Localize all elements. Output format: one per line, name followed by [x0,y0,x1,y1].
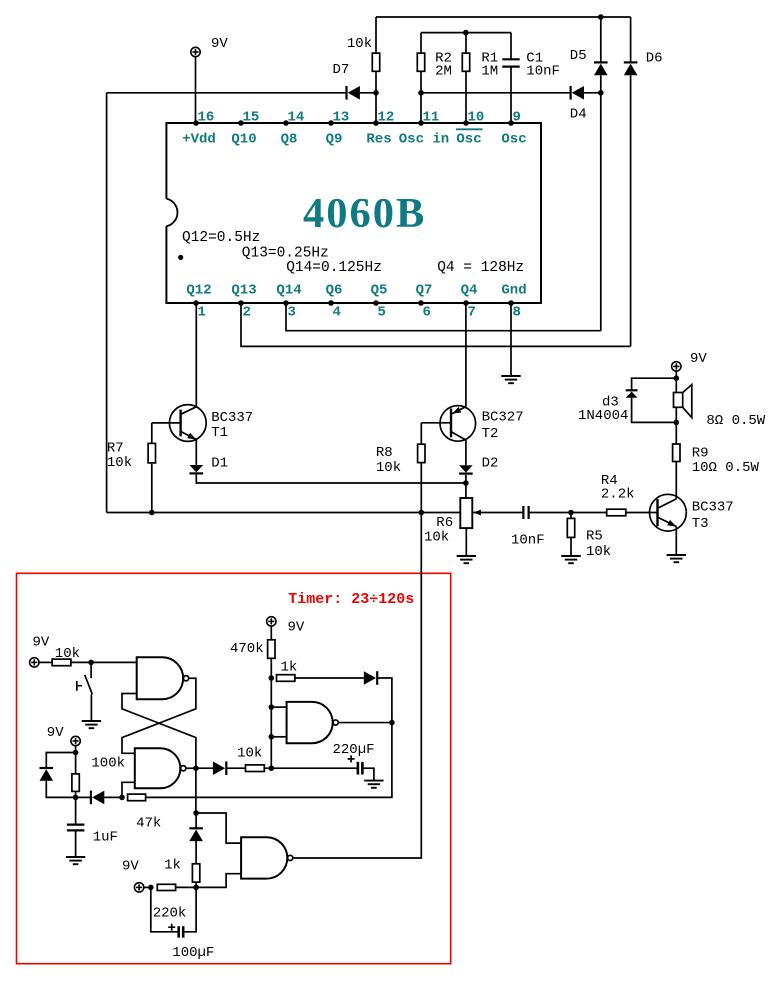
svg-text:14: 14 [288,109,305,125]
wire G2 output down [195,768,197,813]
svg-text:D4: D4 [570,107,587,123]
ground pin 8 [501,376,520,383]
svg-text:10k: 10k [55,646,80,662]
svg-text:Q4 = 128Hz: Q4 = 128Hz [437,260,524,276]
resistor 47k [128,794,146,801]
capacitor 1uF [75,797,77,824]
wire Q13 to D6 [241,303,631,346]
timer block red border [17,573,451,963]
wire oscillator top rail [421,32,511,34]
diode D2 [459,465,473,472]
svg-text:11: 11 [423,109,440,125]
capacitor C1 10nF [510,33,512,60]
node 1k tap [269,675,275,681]
svg-text:D5: D5 [570,48,587,64]
wire 10k to NAND1 input A [71,661,137,663]
node G3 input A [269,704,275,710]
ground R6 [457,556,476,563]
wire 220k to node B [176,886,197,888]
node D2 bottom [465,475,467,483]
svg-text:Q12=0.5Hz: Q12=0.5Hz [182,230,260,246]
resistor R7 10k [151,423,153,444]
svg-text:T2: T2 [482,426,499,442]
svg-text:16: 16 [198,109,215,125]
svg-text:10k: 10k [237,745,262,761]
potentiometer R6 10k [460,498,472,528]
svg-text:9V: 9V [288,620,305,636]
svg-text:1N4004: 1N4004 [578,408,628,424]
svg-text:5: 5 [378,304,386,320]
svg-text:1k: 1k [281,659,298,675]
resistor 10k latch input [39,661,52,663]
svg-text:9V: 9V [47,725,64,741]
diode reset left [46,753,75,769]
resistor 1k bottom [195,841,197,864]
diode D7 [345,86,347,100]
power 9V supply top [191,47,200,56]
wire T1 emitter to D1 [195,440,197,466]
svg-text:10k: 10k [424,529,449,545]
svg-text:2M: 2M [435,63,452,79]
diode D5 [600,17,602,62]
resistor R1 1M [465,33,467,54]
wire top rail [376,16,631,18]
wire 9V to speaker node [675,371,677,378]
wire D4 to D5 net [584,92,601,94]
svg-text:2: 2 [243,304,251,320]
svg-text:1uF: 1uF [93,830,118,846]
resistor 10k top [375,17,377,53]
transistor T3 BC337 [650,494,687,531]
svg-text:10: 10 [468,109,485,125]
diode D1 [190,465,204,472]
resistor R4 2.2k [607,509,626,516]
svg-text:D1: D1 [211,455,228,471]
svg-text:D7: D7 [333,62,350,78]
svg-text:10k: 10k [107,455,132,471]
svg-text:Q13=0.25Hz: Q13=0.25Hz [242,245,329,261]
IC U1 4060B body [166,123,541,303]
power 9V bottom [134,883,143,892]
wire R4 to T3 base [626,512,658,514]
wire D6 down to Q13 line [630,75,632,346]
diode feedback [295,677,364,679]
svg-text:+Vdd: +Vdd [182,132,216,148]
wire pin 1 to T1 collector [195,303,197,407]
svg-text:10Ω 0.5W: 10Ω 0.5W [692,460,760,476]
wire pin 8 to ground [510,303,512,376]
wire node to R4 [571,512,607,514]
svg-text:BC337: BC337 [692,500,734,516]
svg-text:10nF: 10nF [511,532,545,548]
IC U1 bottom pin dots [193,300,199,306]
svg-text:Q6: Q6 [326,283,343,299]
resistor 1k feedback [277,675,295,682]
node switch tap [88,660,94,666]
node NAND4 input A tap [193,810,199,816]
wire T3 collector to R9 [675,462,677,499]
wire node B to G4 input B [196,874,241,888]
svg-text:100µF: 100µF [172,945,214,961]
NAND gate G2 [135,748,181,788]
capacitor 220uF [271,767,357,769]
resistor R8 10k [420,423,422,444]
svg-text:R5: R5 [586,529,603,545]
diode pulse [195,813,197,828]
resistor 470k [270,626,272,640]
wire T1 base [152,422,181,424]
svg-text:47k: 47k [136,816,161,832]
svg-text:R9: R9 [692,446,709,462]
resistor 10k timing [226,767,245,769]
node R7 bottom [149,510,155,516]
svg-text:220k: 220k [153,906,187,922]
resistor R9 10ohm [673,444,680,462]
svg-text:3: 3 [288,304,296,320]
NAND gate G3 [287,702,333,743]
svg-text:Q14=0.125Hz: Q14=0.125Hz [286,260,382,276]
svg-text:BC327: BC327 [482,410,524,426]
node R2 bottom junction [418,90,424,96]
transistor T1 BC337 [169,405,206,442]
ground T3 [667,555,686,562]
switch S1 pushbutton [90,662,92,678]
wire main horizontal net [107,512,473,514]
node B bottom [193,885,199,891]
svg-text:1: 1 [198,304,206,320]
node 47k left [104,796,122,798]
node 220k left [144,886,151,888]
svg-text:220µF: 220µF [333,742,375,758]
svg-text:Q9: Q9 [326,132,343,148]
power 9V 470k [267,617,276,626]
capacitor 10nF coupling [523,506,528,519]
wire Q14 to D5 [286,303,601,331]
node junction pin12/10k/D7 [373,90,379,96]
svg-text:1M: 1M [481,63,498,79]
ground 1uF [66,857,85,864]
wire R6 wiper to C 10nF [473,512,523,514]
node R5 top [568,510,574,516]
wire G1 output to cross-couple [122,678,196,753]
svg-text:9: 9 [513,109,521,125]
node top rail D5 [598,14,604,20]
node R8 bottom [419,510,425,516]
wire D2 node to R6 [465,483,467,498]
svg-text:Q10: Q10 [231,132,256,148]
capacitor 100uF [151,887,178,931]
IC U1 top pin dots [193,120,199,126]
svg-text:10nF: 10nF [526,63,560,79]
wire G3 output [338,722,392,724]
node R9 top [674,420,680,426]
diode D6 [630,17,632,62]
node G3 output [389,720,395,726]
resistor R5 10k [570,513,572,519]
svg-text:470k: 470k [230,641,264,657]
wire D5 down to Q14 line [600,75,602,331]
power 9V latch top [30,658,39,667]
svg-text:D2: D2 [482,456,499,472]
NAND gate G4 [241,837,287,878]
svg-text:4: 4 [333,304,341,320]
wire D7 net horizontal [107,92,347,94]
power 9V speaker [672,362,681,371]
svg-text:12: 12 [378,109,395,125]
svg-text:T3: T3 [692,516,709,532]
svg-text:9V: 9V [33,635,50,651]
svg-text:Osc in: Osc in [399,132,449,148]
NAND gate G1 [137,657,183,699]
svg-text:8Ω 0.5W: 8Ω 0.5W [706,413,765,429]
node 10k right [264,767,271,769]
svg-text:9V: 9V [122,858,139,874]
svg-text:10k: 10k [376,460,401,476]
wire G2 input B to 47k node [122,782,135,797]
svg-text:4060B: 4060B [303,190,426,237]
ground 220uF [364,781,383,788]
svg-text:8: 8 [513,304,521,320]
svg-text:Q7: Q7 [416,283,433,299]
transistor T2 BC327 [440,406,476,442]
svg-text:Osc: Osc [501,132,526,148]
wire junction to D4 [421,92,571,94]
wire D7 to junction [360,92,376,94]
diode d3 1N4004 [632,378,677,390]
node 100k bottom [73,795,79,801]
wire T2 collector to D2 [465,440,467,465]
svg-text:Q4: Q4 [461,283,478,299]
wire D1 to D2 net [196,475,466,483]
wire T3 emitter to ground [675,527,677,556]
wire 10nF to R5/R4 node [529,512,571,514]
wire 9V to node [75,746,77,753]
resistor R2 2M [420,33,422,54]
svg-text:Osc: Osc [456,132,481,148]
resistor 220k [157,884,175,890]
diode 47k line [76,796,91,798]
node D4/D5 junction [598,90,604,96]
svg-text:9V: 9V [211,36,228,52]
wire to G4 input A [196,813,241,843]
svg-text:Q12: Q12 [186,283,211,299]
wire 470k node to G3 inputs [270,678,272,768]
wire 9V to pin 16 [195,57,197,123]
svg-text:Q13: Q13 [231,283,256,299]
svg-text:2.2k: 2.2k [601,486,635,502]
svg-text:9V: 9V [690,351,707,367]
svg-text:D6: D6 [646,51,663,67]
svg-text:13: 13 [333,109,350,125]
wire pin 7 to T2 [465,303,467,407]
resistor 100k [75,753,77,774]
svg-text:Gnd: Gnd [501,283,526,299]
svg-text:Q14: Q14 [276,283,301,299]
svg-text:10k: 10k [347,36,372,52]
wire T2 base [421,422,451,424]
diode G2 output [196,767,214,769]
wire 220uF to ground [364,768,374,780]
svg-text:T1: T1 [211,425,228,441]
svg-text:1k: 1k [164,858,181,874]
power 9V monostable left [71,736,80,745]
svg-text:100k: 100k [91,756,125,772]
svg-text:Q5: Q5 [371,283,388,299]
pin 10 Osc overline [456,128,483,130]
ground switch [82,721,101,728]
wire NAND4 output to main net [292,513,421,859]
node G3 input B [269,734,275,740]
wire left vertical from D7 net [106,93,108,513]
ground R5 [561,556,580,563]
wire diode to G3 output net [377,678,392,723]
svg-text:Res: Res [366,132,391,148]
svg-text:10k: 10k [586,544,611,560]
svg-text:7: 7 [468,304,476,320]
svg-text:15: 15 [243,109,260,125]
svg-text:Timer: 23÷120s: Timer: 23÷120s [288,591,414,608]
svg-text:6: 6 [423,304,431,320]
svg-text:R8: R8 [376,445,393,461]
wire R6 bottom to ground [465,528,467,556]
wire G1 input B cross-couple [122,694,196,768]
svg-text:Q8: Q8 [281,132,298,148]
node R1 top [463,30,469,36]
svg-text:BC337: BC337 [211,410,253,426]
wire 47k to feedback corner [146,723,392,798]
speaker LS1 8ohm [675,378,677,392]
node G2 output [186,767,196,769]
diode D4 [569,86,571,100]
